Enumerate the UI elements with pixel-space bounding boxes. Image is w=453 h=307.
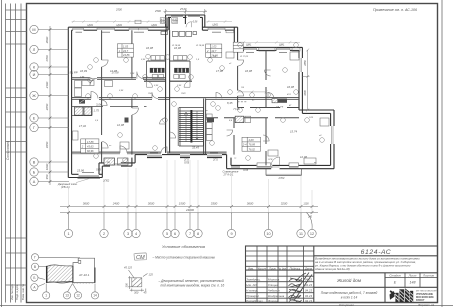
svg-text:Ж: Ж	[32, 94, 36, 98]
left strip	[5, 4, 7, 303]
top dimension annotations	[135, 9, 207, 24]
svg-text:СМ1: СМ1	[148, 93, 153, 95]
bottom bubbles	[43, 292, 50, 299]
svg-text:3300: 3300	[211, 202, 218, 206]
svg-text:Кондратьев: Кондратьев	[268, 294, 285, 298]
enclosure	[147, 60, 191, 62]
header row	[248, 266, 312, 270]
svg-text:45 125: 45 125	[124, 265, 132, 269]
svg-text:2Т-9-1-1: 2Т-9-1-1	[223, 172, 235, 176]
left part horizontals	[246, 250, 314, 252]
svg-text:Г: Г	[34, 256, 36, 260]
svg-text:1100: 1100	[303, 203, 309, 206]
svg-text:2400: 2400	[112, 202, 120, 206]
svg-text:04.23: 04.23	[305, 294, 312, 298]
svg-text:33,45: 33,45	[192, 145, 199, 149]
svg-text:А: А	[33, 180, 36, 184]
corridor strip lower line	[92, 106, 147, 108]
bottom wall m2	[99, 162, 135, 164]
svg-text:2500: 2500	[115, 8, 122, 12]
svg-text:Жилой дом: Жилой дом	[336, 277, 362, 283]
svg-text:здания позиция №14а-об): здания позиция №14а-об)	[314, 267, 350, 271]
svg-text:Кол.уч: Кол.уч	[258, 266, 267, 270]
svg-text:РАБОТ: РАБОТ	[416, 299, 425, 302]
bottom bubbles	[64, 229, 316, 237]
bubble leaders	[69, 213, 313, 230]
svg-text:43,7: 43,7	[123, 49, 129, 53]
svg-text:1500: 1500	[179, 202, 186, 206]
svg-text:4,08: 4,08	[249, 138, 255, 142]
svg-text:4-30: 4-30	[172, 18, 177, 21]
svg-text:12: 12	[310, 232, 314, 236]
svg-text:3600: 3600	[247, 202, 254, 206]
svg-text:24000: 24000	[185, 208, 194, 212]
svg-text:ОГВ: ОГВ	[96, 168, 101, 171]
bottom dimension lines	[60, 206, 318, 208]
top wall left section outer	[68, 26, 237, 28]
svg-text:Заведующ.: Заведующ.	[246, 277, 261, 281]
svg-text:СМ1: СМ1	[181, 93, 186, 95]
svg-text:Морозов: Морозов	[268, 277, 280, 281]
step wall horizontal	[302, 112, 330, 114]
svg-text:13: 13	[65, 294, 69, 298]
kitchen counters above	[151, 56, 187, 60]
svg-text:2-4: 2-4	[242, 143, 247, 147]
svg-text:в осях 1-14: в осях 1-14	[341, 296, 358, 300]
svg-text:25,00: 25,00	[179, 7, 187, 11]
svg-text:Листов: Листов	[422, 274, 434, 278]
svg-text:2100: 2100	[45, 81, 49, 89]
svg-text:Примечание см. л. АС-106: Примечание см. л. АС-106	[373, 8, 417, 12]
svg-text:Ж 17,02: Ж 17,02	[239, 56, 249, 58]
svg-text:3,04: 3,04	[96, 102, 102, 106]
thick sill on left bottom window	[78, 177, 101, 179]
apartment tables	[81, 42, 261, 153]
staff rows	[246, 277, 312, 303]
door arcs	[90, 22, 274, 153]
extension lines from plan to dims	[69, 160, 313, 214]
right wall lower	[333, 110, 335, 169]
svg-text:Лист: Лист	[408, 274, 417, 278]
svg-text:17,08: 17,08	[112, 70, 119, 74]
logo	[390, 288, 438, 302]
svg-text:ОГВ: ОГВ	[243, 168, 248, 172]
svg-text:16,77: 16,77	[276, 105, 283, 109]
svg-text:И: И	[33, 73, 36, 77]
svg-text:3200: 3200	[281, 202, 288, 206]
party wall (double, dark)	[166, 17, 170, 153]
dark fixture bands	[150, 68, 165, 73]
svg-text:43,7: 43,7	[211, 49, 217, 53]
svg-text:2,04: 2,04	[171, 21, 177, 24]
outer cut lines	[1, 0, 3, 307]
svg-text:ЦМ1: ЦМ1	[213, 23, 219, 27]
interior dim line top-right room	[237, 91, 267, 94]
svg-text:76,02: 76,02	[249, 147, 256, 151]
svg-text:АГ-10.1: АГ-10.1	[78, 273, 90, 277]
svg-text:2,02: 2,02	[153, 85, 159, 87]
svg-text:3450: 3450	[45, 141, 49, 148]
svg-text:ОГВ: ОГВ	[268, 159, 273, 161]
small fixtures below band	[152, 75, 185, 79]
svg-text:Ж 16,98: Ж 16,98	[171, 45, 181, 47]
right wall upper	[301, 47, 303, 113]
svg-text:ЦМ1: ЦМ1	[152, 23, 158, 27]
svg-text:Н.контр.: Н.контр.	[246, 288, 258, 292]
svg-text:Изм.: Изм.	[248, 266, 254, 270]
svg-text:1: 1	[67, 232, 69, 236]
room area labels	[70, 46, 308, 172]
svg-text:14: 14	[93, 294, 97, 298]
leader bubbles left	[31, 254, 99, 299]
svg-text:ЦМ1: ЦМ1	[279, 42, 285, 46]
svg-text:Лист: Лист	[268, 266, 277, 270]
svg-text:под монтажным выводом, марка С: под монтажным выводом, марка См. л. 16	[161, 283, 225, 287]
svg-text:1,75: 1,75	[94, 109, 100, 113]
svg-text:8,45: 8,45	[227, 101, 233, 105]
step wall right of left section	[233, 27, 235, 50]
stair	[178, 108, 203, 147]
svg-text:В: В	[34, 265, 36, 269]
svg-text:17,08: 17,08	[216, 69, 223, 73]
svg-text:5: 5	[166, 232, 168, 236]
svg-text:24,86: 24,86	[122, 53, 130, 57]
svg-text:Спицын: Спицын	[268, 283, 279, 287]
svg-text:60,96: 60,96	[87, 149, 94, 153]
svg-text:04.23: 04.23	[305, 288, 312, 292]
svg-text:1: 1	[45, 294, 47, 298]
svg-text:Нач. АО: Нач. АО	[246, 283, 257, 287]
top wall left section inner with window gaps	[72, 29, 235, 31]
svg-text:240: 240	[307, 216, 313, 219]
balcony bottom	[257, 157, 302, 175]
interior walls	[72, 30, 299, 165]
СМ symbol	[134, 253, 147, 260]
svg-text:2850: 2850	[304, 60, 307, 67]
thin stepped outline right	[73, 258, 95, 283]
svg-text:16,98: 16,98	[287, 85, 294, 89]
svg-text:2П1: 2П1	[212, 158, 218, 162]
svg-text:300: 300	[125, 283, 129, 288]
svg-text:Подпись: Подпись	[290, 266, 301, 270]
svg-text:Подп. и дата: Подп. и дата	[15, 284, 19, 300]
fixtures	[73, 48, 330, 164]
right part verticals	[384, 273, 386, 303]
svg-text:950: 950	[45, 174, 49, 179]
svg-text:300: 300	[134, 291, 139, 295]
svg-text:Формат А1: Формат А1	[418, 303, 435, 307]
svg-text:16,99: 16,99	[80, 69, 87, 73]
svg-text:– Место установки стиральной м: – Место установки стиральной машины	[152, 255, 216, 259]
svg-text:5Ц РР: 5Ц РР	[70, 70, 78, 74]
svg-text:ЦМ1: ЦМ1	[246, 42, 252, 46]
svg-text:2П02: 2П02	[102, 178, 110, 182]
svg-text:12,06: 12,06	[300, 155, 307, 159]
svg-text:1,03: 1,03	[211, 45, 217, 49]
svg-text:4-30: 4-30	[161, 18, 166, 21]
window dimension chains	[72, 20, 300, 44]
svg-text:Разработал: Разработал	[246, 299, 263, 303]
svg-text:125: 125	[149, 272, 154, 276]
svg-text:76,89: 76,89	[249, 143, 256, 147]
svg-text:11: 11	[299, 232, 303, 236]
svg-text:Инв. № подл.: Инв. № подл.	[10, 284, 14, 300]
svg-text:8: 8	[197, 232, 199, 236]
step x=99	[98, 163, 100, 174]
left part verticals	[256, 246, 258, 303]
svg-text:04.23: 04.23	[305, 299, 312, 303]
svg-text:В: В	[33, 161, 36, 165]
step near x=226	[226, 155, 228, 169]
svg-text:Согласовано: Согласовано	[6, 141, 10, 160]
svg-text:Дата: Дата	[304, 266, 313, 270]
title block	[246, 246, 438, 303]
svg-text:3300: 3300	[304, 90, 307, 96]
svg-text:2000: 2000	[45, 36, 49, 44]
svg-text:1Ц: 1Ц	[107, 161, 110, 164]
svg-text:Г: Г	[33, 126, 35, 130]
svg-text:9: 9	[230, 232, 232, 236]
svg-text:2,02: 2,02	[176, 85, 182, 87]
svg-text:2,02: 2,02	[118, 90, 124, 92]
vertical dimension line	[49, 26, 51, 185]
bottom wall left	[68, 177, 102, 179]
svg-text:2,02: 2,02	[140, 59, 146, 61]
svg-text:2500: 2500	[154, 9, 161, 13]
decorative element symbol	[128, 270, 147, 292]
wavy bottom	[47, 282, 74, 283]
protrusion	[165, 15, 167, 27]
svg-text:6: 6	[174, 232, 176, 236]
svg-text:-0,58: -0,58	[192, 22, 198, 24]
svg-text:12: 12	[76, 294, 80, 298]
svg-text:Фомина: Фомина	[268, 299, 279, 303]
bottom wall right section	[227, 168, 334, 170]
svg-text:М: М	[32, 28, 35, 32]
svg-text:2250: 2250	[45, 103, 49, 111]
svg-text:ОГВ: ОГВ	[184, 160, 189, 164]
scattered tiny annotations	[80, 45, 322, 164]
signatures squiggles	[289, 273, 313, 303]
svg-text:3600: 3600	[83, 202, 90, 206]
door arcs below	[147, 81, 191, 87]
radiators under windows	[76, 30, 288, 172]
svg-text:Б: Б	[33, 276, 35, 280]
left axis bubbles column	[30, 25, 69, 185]
right side dim line	[302, 49, 309, 112]
svg-text:Стадия: Стадия	[389, 274, 401, 278]
svg-text:Е: Е	[33, 117, 36, 121]
svg-text:1700: 1700	[45, 55, 49, 62]
svg-text:1,03: 1,03	[123, 44, 129, 48]
vestibule boxes below protrusion	[161, 32, 197, 37]
svg-text:№ док.: № док.	[278, 266, 287, 270]
svg-text:Чебыкин: Чебыкин	[268, 288, 280, 292]
svg-text:1000: 1000	[45, 163, 49, 170]
right part horizontals	[314, 255, 438, 257]
svg-text:43,63: 43,63	[87, 145, 94, 149]
svg-text:План отделочных работ 6, 7 эта: План отделочных работ 6, 7 этажей	[321, 291, 378, 295]
svg-text:23,96: 23,96	[76, 168, 84, 172]
svg-text:2,04: 2,04	[160, 21, 166, 24]
circled position marks with leaders	[86, 43, 325, 163]
svg-text:2: 2	[103, 232, 105, 236]
svg-text:6124-АС: 6124-АС	[361, 249, 392, 256]
svg-text:10: 10	[266, 232, 270, 236]
bottom wall middle	[135, 154, 227, 156]
exterior walls	[68, 15, 334, 178]
svg-text:3000: 3000	[148, 202, 155, 206]
svg-text:МУ «МОСКОВСКОЙ»: МУ «МОСКОВСКОЙ»	[416, 289, 438, 292]
labels below plan	[57, 158, 285, 189]
svg-text:17,88: 17,88	[87, 140, 94, 144]
bathrooms block	[72, 56, 244, 165]
dims	[128, 277, 132, 279]
svg-text:Условные обозначения: Условные обозначения	[162, 244, 206, 249]
left wall	[67, 27, 69, 177]
svg-text:12Ф: 12Ф	[309, 116, 313, 119]
svg-text:ЦМ1: ЦМ1	[117, 23, 123, 27]
top wall right section	[234, 46, 302, 48]
svg-text:2703: 2703	[278, 176, 285, 180]
svg-text:12,08: 12,08	[117, 123, 124, 127]
svg-text:Ж 16,98: Ж 16,98	[195, 45, 205, 47]
svg-text:16,98: 16,98	[146, 46, 153, 50]
svg-text:ЦМ1: ЦМ1	[88, 23, 94, 27]
svg-text:3: 3	[127, 232, 129, 236]
svg-text:148: 148	[410, 281, 416, 285]
svg-text:Проверил: Проверил	[246, 294, 259, 298]
window end ticks top wall	[73, 27, 290, 50]
svg-text:7: 7	[189, 232, 191, 236]
svg-text:СМ: СМ	[136, 255, 145, 261]
svg-text:17,32: 17,32	[79, 124, 86, 128]
svg-text:4: 4	[135, 232, 137, 236]
windows thin double lines	[73, 16, 333, 177]
svg-text:Взам. инв. №: Взам. инв. №	[21, 284, 25, 300]
svg-text:Копировал: Копировал	[339, 303, 354, 307]
svg-text:16,98: 16,98	[245, 69, 252, 73]
step x=132	[131, 158, 133, 167]
svg-text:15,74: 15,74	[290, 130, 297, 134]
